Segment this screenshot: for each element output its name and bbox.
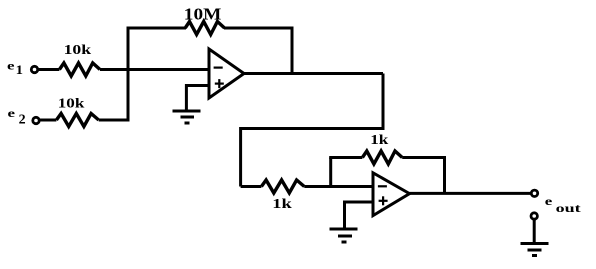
wire: U1 non-inverting input to ground xyxy=(186,86,209,112)
wire: vertical drop to stage-2 input xyxy=(239,127,242,187)
svg-text:1k: 1k xyxy=(370,133,388,148)
svg-text:10M: 10M xyxy=(184,5,222,24)
wire: summing junction vertical bus xyxy=(127,27,130,121)
op-amp U2 non-inverting input plus sign xyxy=(379,200,388,202)
svg-text:10k: 10k xyxy=(58,97,85,112)
svg-text:e: e xyxy=(8,106,16,120)
op-amp U2 inverting input minus sign xyxy=(378,185,387,187)
wire: feedback right vertical into U1 output xyxy=(291,27,294,74)
svg-text:10k: 10k xyxy=(64,43,92,58)
wire: horizontal run back to the left xyxy=(241,127,385,130)
wire: vertical drop from U1 output xyxy=(382,74,385,129)
wire: e1 terminal to R2 xyxy=(38,68,59,71)
wire: feedback2 right vertical into U2 output xyxy=(443,156,446,193)
wire: ground terminal lead xyxy=(533,220,536,244)
node e1 input terminal xyxy=(31,66,37,72)
node e_out terminal xyxy=(531,190,537,196)
ground below U1 xyxy=(173,110,201,113)
wire: U2 non-inverting input to ground xyxy=(345,202,374,229)
wire: U1 output horizontal run xyxy=(244,72,383,75)
op-amp U2 xyxy=(373,173,410,216)
svg-text:1: 1 xyxy=(16,63,23,77)
ground below U2 xyxy=(330,228,358,231)
wire: feedback2 top right segment xyxy=(402,156,444,159)
resistor R5 1k (U2 feedback) xyxy=(362,151,402,164)
svg-text:out: out xyxy=(556,201,581,215)
wire: U2 output to e_out terminal xyxy=(410,192,532,195)
node e2 input terminal xyxy=(33,117,39,123)
wire: feedback top left segment xyxy=(128,27,186,30)
op-amp U1 non-inverting input plus sign xyxy=(215,82,224,84)
resistor R1 10M (feedback of U1) xyxy=(185,22,224,35)
svg-text:e: e xyxy=(545,194,553,208)
wire: R4 to U2 inverting input xyxy=(304,185,373,188)
resistor R3 10k (e2 input) xyxy=(56,114,98,127)
wire: e2 terminal to R3 xyxy=(40,119,57,122)
wire: R3 to summing bus xyxy=(99,119,130,122)
op-amp U1 inverting input minus sign xyxy=(214,66,223,68)
wire: feedback2 top left segment xyxy=(329,156,362,159)
ground below e_out terminal xyxy=(521,242,549,245)
node ground reference terminal xyxy=(531,213,537,219)
svg-text:e: e xyxy=(7,59,15,73)
resistor R4 1k (U2 series input) xyxy=(261,180,304,193)
wire: feedback top right segment xyxy=(224,27,292,30)
svg-text:1k: 1k xyxy=(272,197,292,212)
wire: R2 to U1 inverting input xyxy=(100,68,209,71)
wire: feedback2 left vertical tap xyxy=(329,158,332,187)
op-amp U1 xyxy=(209,49,244,98)
wire: stage-2 input to R4 xyxy=(241,185,262,188)
resistor R2 10k (e1 input) xyxy=(59,63,100,76)
svg-text:2: 2 xyxy=(19,112,26,127)
